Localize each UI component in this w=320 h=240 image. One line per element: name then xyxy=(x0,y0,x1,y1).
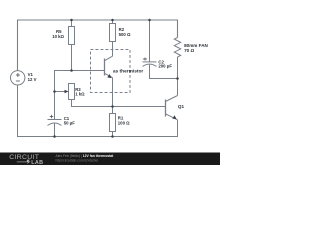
svg-text:Q1: Q1 xyxy=(178,104,185,109)
svg-text:70 Ω: 70 Ω xyxy=(184,48,194,53)
svg-text:http​//circuitlab.com/c/xda3xe: http​//circuitlab.com/c/xda3xe xyxy=(56,159,99,163)
svg-text:as thermistor: as thermistor xyxy=(113,69,144,75)
svg-text:10 kΩ: 10 kΩ xyxy=(52,34,64,39)
svg-text:200 μF: 200 μF xyxy=(158,64,172,69)
svg-text:50 μF: 50 μF xyxy=(64,121,76,126)
svg-text:LAB: LAB xyxy=(31,160,43,165)
svg-text:1 kΩ: 1 kΩ xyxy=(75,91,85,96)
svg-text:Alex Feb (fields) | 12V fan th: Alex Feb (fields) | 12V fan thermostat xyxy=(56,154,115,158)
svg-text:500 Ω: 500 Ω xyxy=(119,32,131,37)
svg-text:12 V: 12 V xyxy=(28,77,37,82)
svg-text:100 Ω: 100 Ω xyxy=(118,120,130,125)
